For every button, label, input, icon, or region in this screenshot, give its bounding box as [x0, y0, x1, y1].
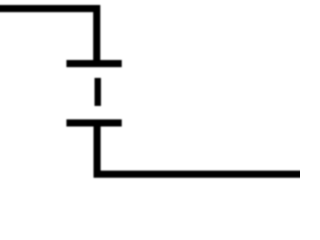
capacitor bottom plate: [66, 119, 121, 126]
wire top-left to capacitor top: [0, 9, 97, 64]
wire capacitor bottom to right edge: [97, 123, 306, 174]
capacitor top plate: [66, 60, 121, 67]
capacitor dashed gap line: [95, 78, 101, 106]
